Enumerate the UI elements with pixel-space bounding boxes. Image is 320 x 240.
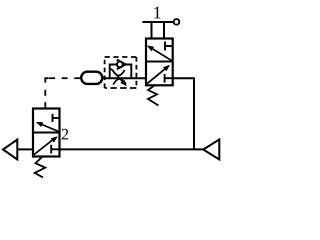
wire from valve U1 right port down to exhaust node	[173, 78, 194, 149]
main wire from reservoir to valve U1 left port	[102, 77, 146, 79]
valve U1 top box flow arrow	[147, 45, 172, 60]
bypass loop of flow control valve	[110, 65, 132, 79]
valve U2 top box flow arrow	[36, 122, 60, 132]
wire from exhaust triangle to valve U2	[17, 148, 33, 150]
roller lever actuator of valve 1	[142, 22, 174, 39]
label 2 (valve 2 designator)	[62, 129, 68, 140]
air reservoir (capsule)	[81, 72, 102, 84]
spring of valve U2	[35, 157, 46, 177]
dashed pilot line from reservoir to valve U2	[45, 78, 80, 107]
exhaust triangle at valve U2 left port	[3, 140, 17, 160]
valve U2 bottom box blocked port	[51, 145, 59, 154]
valve U1 body (3/2-way valve)	[146, 39, 173, 86]
spring of valve U1	[148, 86, 159, 106]
check valve seat	[117, 60, 126, 69]
roller circle of actuator	[174, 19, 180, 25]
valve U1 top box blocked port	[165, 42, 173, 51]
flow control valve dashed enclosure	[105, 57, 137, 88]
throttle adjustment arrow	[111, 69, 127, 87]
throttle upper arc	[112, 70, 124, 76]
valve U1 bottom box blocked port	[165, 74, 173, 83]
valve U2 body (3/2-way valve)	[33, 109, 60, 157]
throttle lower arc	[113, 79, 126, 85]
check valve ball	[117, 62, 123, 68]
wire from valve U2 right port to supply triangle	[60, 148, 204, 150]
supply triangle at bottom right	[203, 140, 219, 160]
valve U2 bottom box flow arrow	[34, 136, 58, 155]
valve U2 top box blocked port	[53, 114, 60, 122]
label 1 (valve 1 designator)	[154, 7, 160, 19]
valve U1 bottom box flow arrow	[146, 65, 170, 84]
